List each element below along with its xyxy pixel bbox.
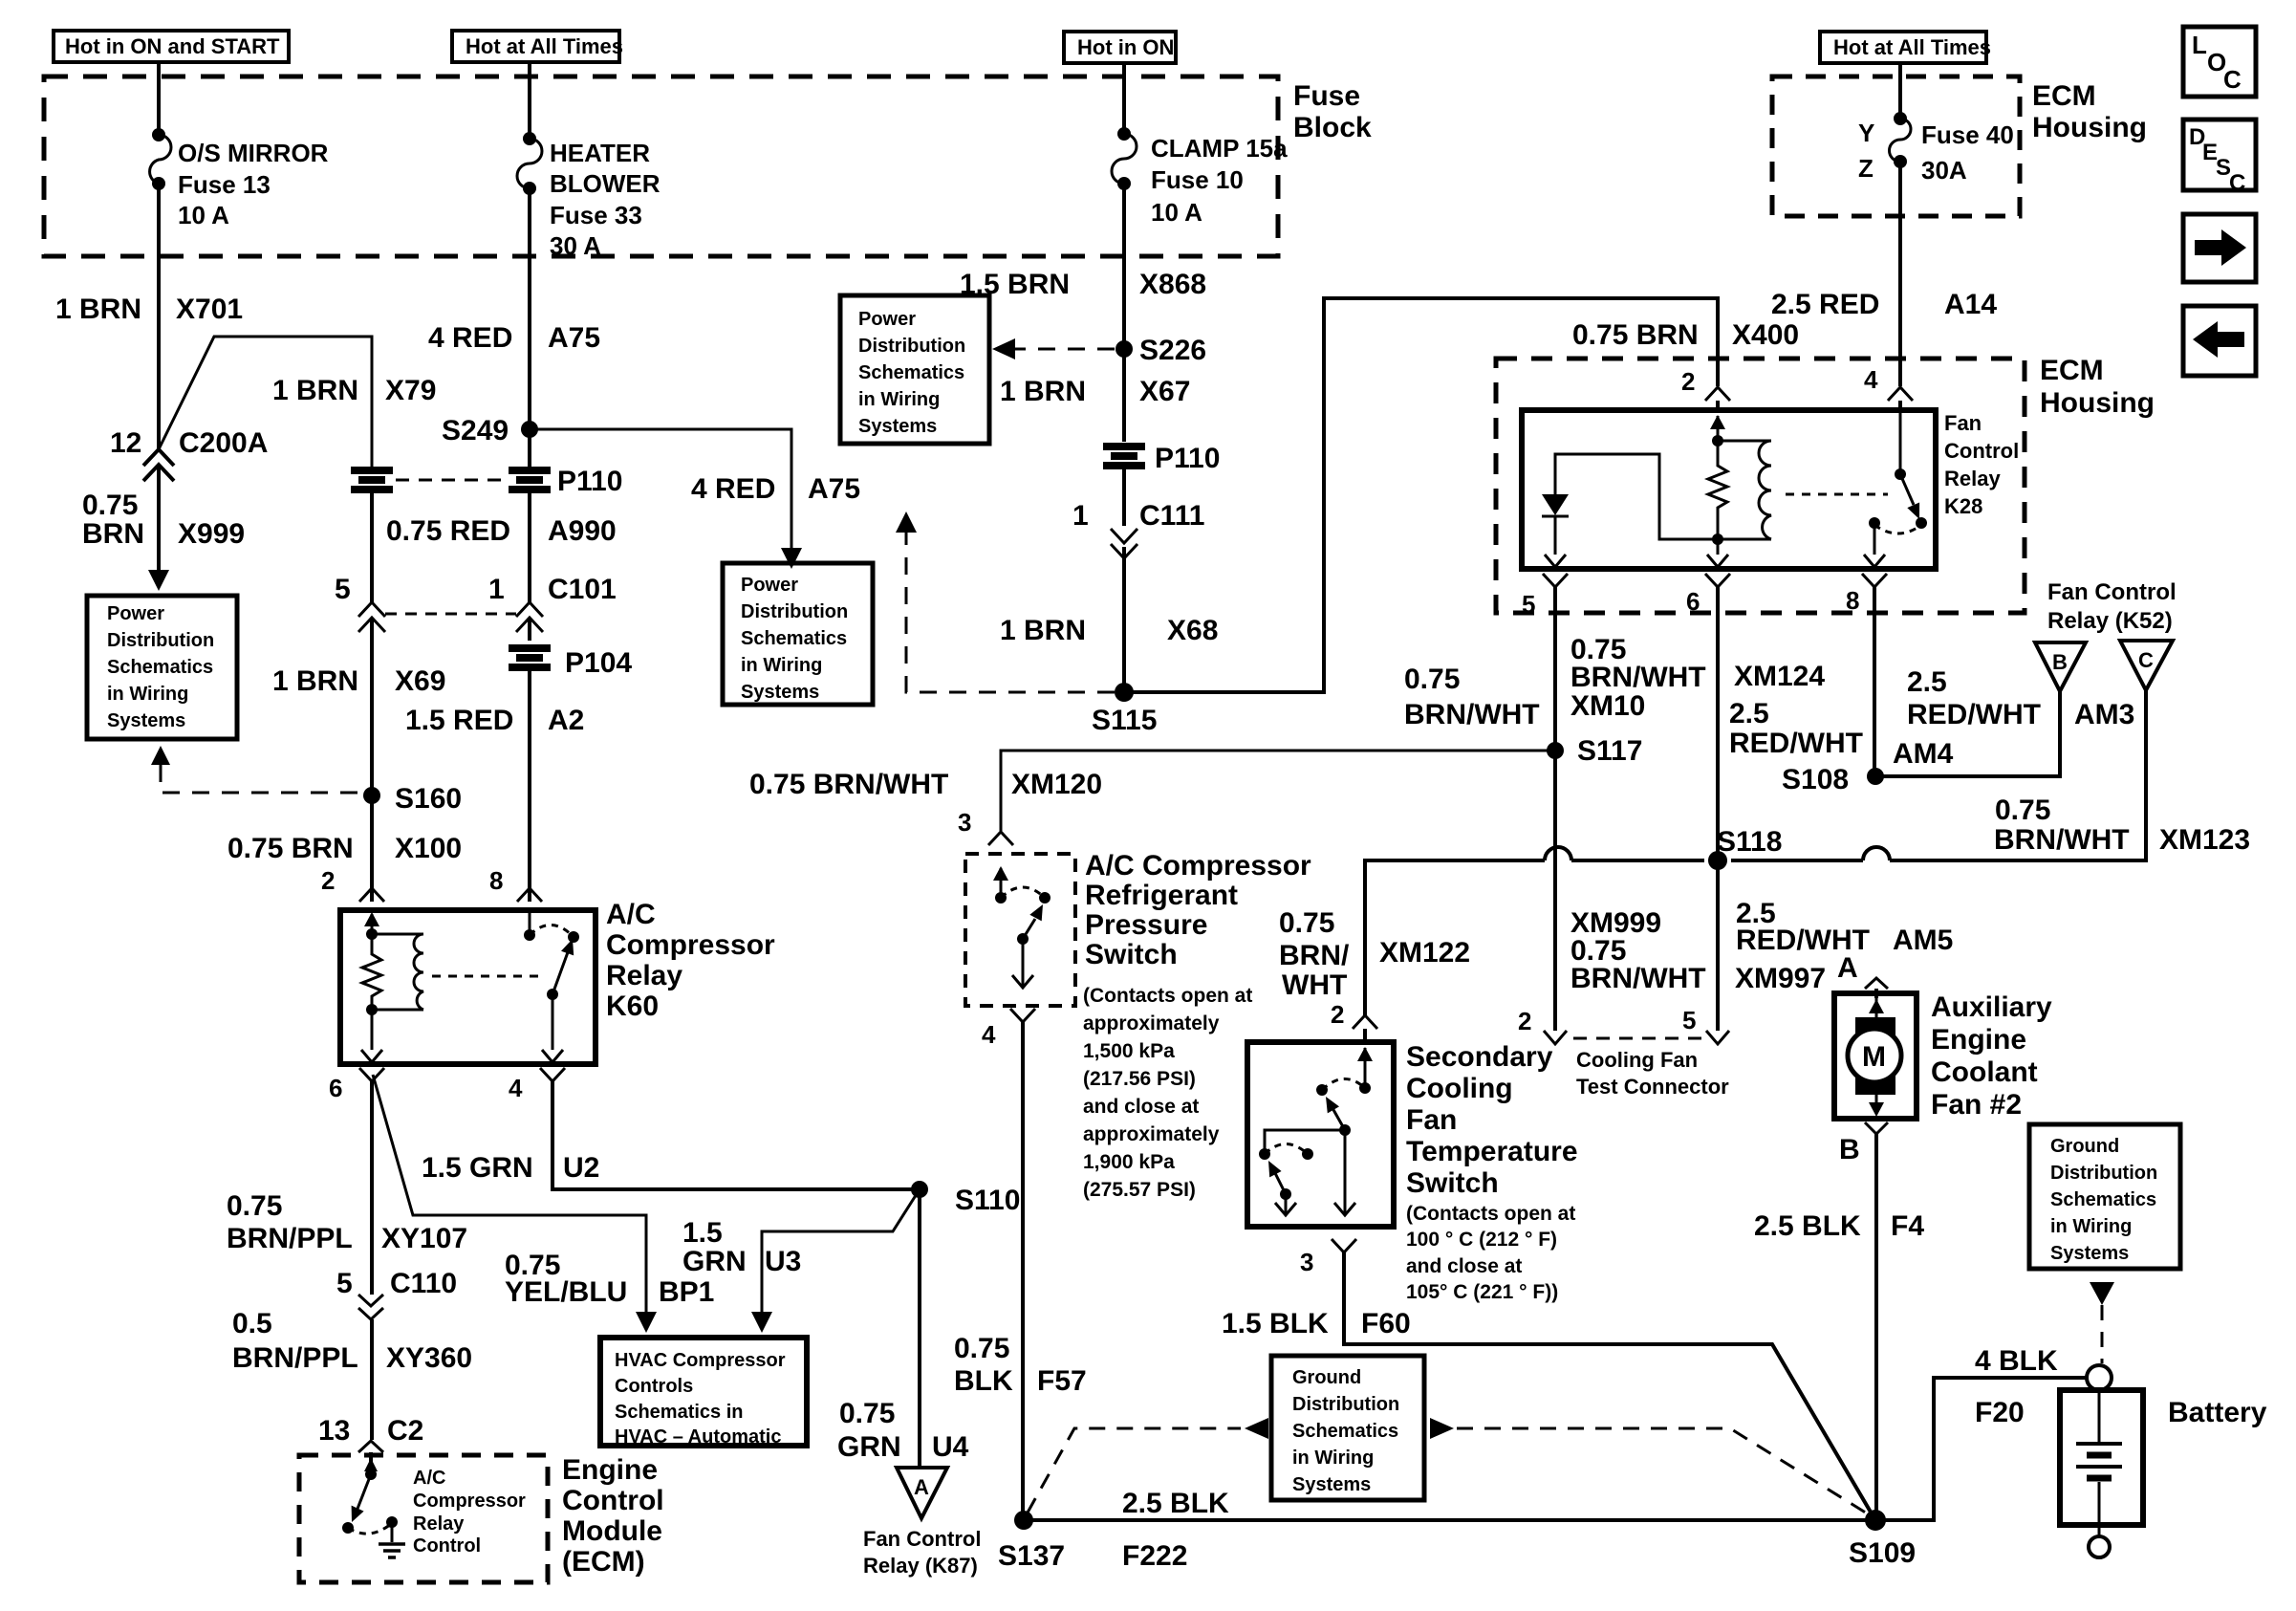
- K28 pin2 entry arrow: [1710, 415, 1725, 446]
- svg-text:Coolant: Coolant: [1931, 1056, 2038, 1088]
- chevron ECM2 pin2: [1681, 367, 1730, 401]
- wire: Hot at All Times to fuse 40: [1898, 63, 1902, 119]
- arrowhead A75: [781, 548, 802, 569]
- label: pin 4 pressure switch: [982, 1020, 996, 1049]
- svg-text:BP1: BP1: [659, 1276, 714, 1308]
- svg-text:30 A: 30 A: [550, 231, 601, 260]
- label: Auxiliary Engine Coolant Fan #2: [1931, 991, 2052, 1121]
- relay K60 box: [340, 910, 596, 1064]
- svg-text:BRN/: BRN/: [1279, 940, 1350, 971]
- svg-text:F20: F20: [1975, 1397, 2025, 1428]
- svg-text:approximately: approximately: [1083, 1123, 1220, 1145]
- label: 1 BRN | X69: [272, 665, 445, 697]
- svg-text:Schematics in: Schematics in: [615, 1402, 744, 1423]
- svg-text:BLOWER: BLOWER: [550, 169, 661, 198]
- wire: XM120 horizontal from S117: [1001, 751, 1555, 831]
- wire: X100 segment: [370, 795, 374, 902]
- svg-text:1 BRN: 1 BRN: [1000, 376, 1086, 407]
- Power Distribution box 1: [87, 596, 237, 739]
- label: ECM Housing (top): [2032, 80, 2147, 143]
- label: 5 | C110: [336, 1268, 457, 1299]
- label: P110: [1155, 443, 1220, 474]
- hop over AM5 wire: [1863, 847, 1890, 860]
- svg-text:10 A: 10 A: [178, 201, 229, 229]
- svg-text:X100: X100: [395, 833, 462, 864]
- chevron motor pin A: [1837, 952, 1888, 989]
- label: 0.75 BRN/ WHT (XM122): [1279, 907, 1470, 1001]
- svg-text:RED/WHT: RED/WHT: [1907, 699, 2041, 730]
- svg-text:Fan Control: Fan Control: [2047, 579, 2177, 605]
- label: 1 BRN | X701: [55, 294, 243, 325]
- svg-text:P110: P110: [1155, 443, 1220, 474]
- connector C111 (double chevron down): [1111, 529, 1137, 558]
- label: 1.5 RED | A2: [405, 705, 584, 736]
- svg-text:Engine: Engine: [1931, 1024, 2026, 1056]
- svg-text:0.75: 0.75: [227, 1190, 282, 1222]
- wire: pin5 down to S117: [1553, 587, 1557, 751]
- svg-text:P110: P110: [557, 466, 622, 497]
- svg-text:Control: Control: [562, 1485, 664, 1516]
- svg-text:Fuse 13: Fuse 13: [178, 170, 271, 199]
- svg-text:1.5: 1.5: [682, 1217, 723, 1249]
- svg-text:Cooling Fan: Cooling Fan: [1576, 1048, 1698, 1072]
- label: 0.75 BLK | F57: [954, 1333, 1087, 1397]
- svg-text:S117: S117: [1577, 735, 1642, 767]
- svg-text:Switch: Switch: [1085, 939, 1178, 970]
- svg-text:100 ° C (212 ° F): 100 ° C (212 ° F): [1406, 1229, 1557, 1251]
- wire: X868 fuse10 to S226: [1122, 184, 1126, 442]
- wire: X69 segment: [370, 618, 374, 795]
- svg-text:Module: Module: [562, 1515, 662, 1547]
- wire: XM123 triangle C down and across with hops: [1365, 690, 2146, 1015]
- svg-text:S249: S249: [442, 415, 509, 446]
- svg-text:0.75 BRN: 0.75 BRN: [1572, 319, 1699, 351]
- label: 0.75 YEL/BLU | BP1: [505, 1250, 714, 1308]
- svg-text:Test Connector: Test Connector: [1576, 1075, 1729, 1099]
- svg-text:Compressor: Compressor: [413, 1491, 526, 1512]
- dashed wire: Ground box to S109: [1457, 1428, 1872, 1516]
- svg-text:K28: K28: [1944, 494, 1982, 518]
- ECM internal switch (A/C Compressor Relay Control): [342, 1458, 405, 1557]
- K60 switch arm: [542, 939, 574, 1062]
- svg-text:Housing: Housing: [2032, 112, 2147, 143]
- svg-text:C200A: C200A: [179, 427, 268, 459]
- svg-text:0.75 BRN/WHT: 0.75 BRN/WHT: [749, 769, 948, 800]
- svg-text:and close at: and close at: [1406, 1255, 1522, 1277]
- svg-text:Z: Z: [1858, 154, 1874, 183]
- label: 1.5 GRN | U2: [422, 1152, 599, 1184]
- wire: XY107 segment pin6 down: [370, 1081, 374, 1295]
- svg-text:1: 1: [1072, 500, 1089, 532]
- wire: Hot at All Times to fuse 33: [528, 62, 531, 139]
- connector P110 (third): [1103, 446, 1145, 466]
- svg-text:Schematics: Schematics: [858, 362, 964, 383]
- label: P110: [557, 466, 622, 497]
- right-arrow box: [2183, 214, 2256, 282]
- wire: pin8 down to S108: [1873, 587, 1876, 776]
- label: 0.75 BRN/WHT | XM120: [749, 769, 1102, 800]
- ECM Housing dashed box (top right, fuse 40): [1772, 76, 2020, 216]
- label: CLAMP 15a Fuse 10 10 A: [1151, 134, 1288, 227]
- svg-text:XM10: XM10: [1570, 690, 1645, 722]
- svg-text:GRN: GRN: [682, 1246, 747, 1277]
- svg-text:2.5 BLK: 2.5 BLK: [1122, 1488, 1229, 1519]
- svg-text:8: 8: [489, 866, 503, 895]
- svg-text:BLK: BLK: [954, 1365, 1013, 1397]
- svg-text:Relay: Relay: [413, 1513, 465, 1535]
- label: 1.5 BRN | X868: [960, 269, 1206, 300]
- label: Fuse 40 30A: [1921, 120, 2014, 185]
- svg-text:X69: X69: [395, 665, 445, 697]
- wire: XY360 segment: [370, 1319, 374, 1440]
- label: XM124 2.5 RED/WHT: [1729, 661, 1863, 759]
- connector C101 (right, double chevron up): [516, 602, 543, 632]
- svg-text:BRN/WHT: BRN/WHT: [1570, 963, 1706, 994]
- svg-text:C: C: [2229, 170, 2245, 196]
- label: 2.5 RED/WHT | AM5: [1736, 898, 1953, 956]
- svg-text:Temperature: Temperature: [1406, 1136, 1578, 1167]
- svg-text:ECM: ECM: [2040, 355, 2104, 386]
- svg-text:XM124: XM124: [1734, 661, 1825, 692]
- svg-text:F4: F4: [1891, 1210, 1924, 1242]
- label: 13 | C2: [318, 1415, 423, 1447]
- node S118: [1708, 826, 1782, 870]
- K60 pin6 chevron below box: [359, 1068, 384, 1081]
- svg-text:C: C: [2138, 648, 2154, 672]
- Power Distribution box 3: [840, 295, 989, 444]
- svg-text:2: 2: [1518, 1007, 1531, 1035]
- svg-text:Distribution: Distribution: [1292, 1394, 1399, 1415]
- label: 1 | C111: [1072, 500, 1204, 532]
- svg-text:F60: F60: [1361, 1308, 1411, 1339]
- Ground Distribution box (right): [2029, 1124, 2180, 1269]
- chevron pin4: [1010, 1009, 1035, 1022]
- svg-text:Y: Y: [1858, 119, 1874, 147]
- wire: X79 diagonal and down: [159, 337, 372, 469]
- svg-text:YEL/BLU: YEL/BLU: [505, 1276, 627, 1308]
- svg-text:B: B: [2052, 650, 2068, 674]
- svg-text:10 A: 10 A: [1151, 198, 1202, 227]
- svg-text:4 RED: 4 RED: [691, 473, 775, 505]
- label: 0.75 BRN | X999: [82, 490, 245, 550]
- label: 2.5 BLK | F222: [1122, 1488, 1229, 1572]
- wire: F57 pressure switch pin4 down to S137: [1021, 1022, 1025, 1520]
- svg-text:0.75 BRN: 0.75 BRN: [227, 833, 354, 864]
- svg-text:S115: S115: [1092, 705, 1157, 736]
- fuse F40 (Fuse 40 30A): [1890, 112, 1912, 168]
- svg-text:Schematics: Schematics: [107, 657, 213, 678]
- label: 4 RED | A75 (lower): [691, 473, 860, 505]
- svg-text:B: B: [1839, 1134, 1860, 1165]
- svg-text:1 BRN: 1 BRN: [272, 665, 358, 697]
- svg-text:Systems: Systems: [741, 682, 819, 703]
- K60 pin4 chevron below box: [540, 1068, 565, 1081]
- svg-text:XM997: XM997: [1735, 963, 1826, 994]
- wire pin2 into box: [1363, 1029, 1367, 1042]
- svg-text:S109: S109: [1849, 1537, 1916, 1569]
- label: 0.75 BRN/WHT | XM123: [1994, 795, 2250, 856]
- LOC box: [2183, 27, 2256, 97]
- svg-text:Relay (K52): Relay (K52): [2047, 608, 2173, 634]
- arrowhead below right Ground box: [2090, 1282, 2114, 1305]
- wire: A2 segment down to relay pin 8: [528, 667, 531, 902]
- svg-text:1 BRN: 1 BRN: [1000, 615, 1086, 646]
- wire: U3 from S110 to HVAC box: [751, 1189, 920, 1333]
- label: pressure switch contact note: [1083, 985, 1252, 1201]
- label: O/S MIRROR Fuse 13 10 A: [178, 139, 329, 229]
- Power Distribution box 2: [723, 563, 873, 705]
- svg-text:5: 5: [335, 574, 351, 605]
- wire: A2 upper segment: [528, 618, 531, 641]
- node S108: [1782, 764, 1884, 795]
- chevron ECM2 pin4: [1864, 365, 1913, 401]
- label: Battery: [2168, 1397, 2267, 1428]
- temp switch upper contacts: [1316, 1047, 1373, 1096]
- svg-text:0.75: 0.75: [1995, 795, 2050, 826]
- label: 1.5 GRN | U3: [682, 1217, 801, 1277]
- arrowhead into Power Distribution box 1: [148, 570, 169, 591]
- svg-text:C: C: [2223, 65, 2242, 94]
- svg-text:1,500 kPa: 1,500 kPa: [1083, 1040, 1175, 1062]
- label: 4 RED | A75 (upper): [428, 322, 600, 354]
- label: 0.75 GRN | U4: [837, 1398, 969, 1463]
- chevron motor pin B: [1839, 1122, 1888, 1165]
- svg-text:4: 4: [509, 1074, 523, 1102]
- K28 coil: [1718, 441, 1771, 539]
- svg-text:Relay: Relay: [1944, 467, 2001, 490]
- svg-text:2.5 BLK: 2.5 BLK: [1754, 1210, 1861, 1242]
- ECM Housing dashed box 2: [1496, 359, 2025, 613]
- label: Fan Control Relay (K52): [2047, 579, 2177, 634]
- label: 0.75 BRN/PPL | XY107: [227, 1190, 467, 1254]
- wire: XM999 S117 down to test connector pin2: [1553, 751, 1557, 1031]
- label: AM4: [1893, 738, 1954, 770]
- svg-text:1: 1: [488, 574, 505, 605]
- svg-text:Engine: Engine: [562, 1454, 658, 1486]
- A/C pressure switch dashed box: [965, 854, 1075, 1006]
- temp switch lower contacts: [1259, 1144, 1313, 1161]
- svg-text:(Contacts open at: (Contacts open at: [1406, 1203, 1575, 1225]
- label: ECM Housing (2): [2040, 355, 2155, 419]
- chevron pin3: [988, 832, 1013, 845]
- svg-text:2: 2: [321, 866, 335, 895]
- svg-text:Control: Control: [1944, 439, 2019, 463]
- Battery box: [2060, 1390, 2143, 1536]
- battery top terminal: [2087, 1365, 2112, 1390]
- svg-text:Systems: Systems: [858, 416, 937, 437]
- svg-text:in Wiring: in Wiring: [858, 389, 940, 410]
- svg-text:4 BLK: 4 BLK: [1975, 1345, 2058, 1377]
- svg-text:Switch: Switch: [1406, 1167, 1499, 1199]
- test connector pin2 arrow: [1518, 1007, 1567, 1044]
- label: 2.5 RED/WHT | AM3: [1907, 666, 2134, 730]
- svg-text:A2: A2: [548, 705, 584, 736]
- label: 4 BLK | F20: [1975, 1345, 2058, 1428]
- svg-text:0.75: 0.75: [839, 1398, 895, 1429]
- svg-text:P104: P104: [565, 647, 632, 679]
- svg-text:in Wiring: in Wiring: [741, 655, 822, 676]
- svg-text:WHT: WHT: [1282, 969, 1347, 1001]
- svg-text:X79: X79: [385, 375, 436, 406]
- connector P110 (right half): [509, 470, 551, 490]
- svg-text:2.5 RED: 2.5 RED: [1771, 289, 1879, 320]
- wire: S115 solid route to ECM2 pin2: [1124, 298, 1718, 692]
- svg-text:K60: K60: [606, 991, 659, 1022]
- temp switch right branch down: [1334, 1130, 1355, 1215]
- svg-text:1 BRN: 1 BRN: [272, 375, 358, 406]
- svg-text:BRN: BRN: [82, 518, 144, 550]
- K28 switch contact from pin4: [1895, 410, 1906, 480]
- temp switch upper arm: [1326, 1097, 1351, 1136]
- hop over XM999 wire: [1545, 847, 1571, 860]
- svg-text:HEATER: HEATER: [550, 139, 650, 167]
- svg-text:XY107: XY107: [381, 1223, 467, 1254]
- label: 2.5 RED | A14: [1771, 289, 1997, 320]
- svg-text:A/C: A/C: [606, 899, 656, 930]
- label: Secondary Cooling Fan Temperature Switch: [1406, 1041, 1578, 1199]
- svg-text:Power: Power: [858, 309, 916, 330]
- triangle C: [2120, 641, 2173, 690]
- triangle A (Fan Control Relay K87): [897, 1468, 947, 1518]
- label: 1 BRN | X67: [1000, 376, 1190, 407]
- fuse block dashed box: [44, 76, 1278, 256]
- svg-text:Systems: Systems: [1292, 1474, 1371, 1495]
- chevron temp switch pin3: [1300, 1239, 1356, 1276]
- K60 dashed coil to arm: [432, 975, 541, 978]
- K60 coil: [372, 934, 423, 1010]
- svg-text:Hot at All Times: Hot at All Times: [1833, 35, 1991, 59]
- svg-text:U3: U3: [765, 1246, 801, 1277]
- label: 1 BRN | X79: [272, 375, 436, 406]
- connector C2 chevron: [358, 1441, 383, 1452]
- svg-text:F57: F57: [1037, 1365, 1087, 1397]
- wire: BP1 diagonal from pin6: [373, 1075, 657, 1333]
- svg-text:1 BRN: 1 BRN: [55, 294, 141, 325]
- label: 5 | 1 | C101: [335, 574, 617, 605]
- svg-text:Schematics: Schematics: [2050, 1189, 2156, 1210]
- svg-text:CLAMP 15a: CLAMP 15a: [1151, 134, 1288, 163]
- svg-text:0.75: 0.75: [1404, 664, 1460, 695]
- HVAC Compressor Controls box: [600, 1338, 807, 1448]
- svg-text:Fuse: Fuse: [1293, 80, 1360, 112]
- svg-text:A75: A75: [548, 322, 600, 354]
- svg-text:BRN/WHT: BRN/WHT: [1994, 824, 2130, 856]
- K28 bottom node: [1707, 533, 1728, 567]
- svg-text:ECM: ECM: [2032, 80, 2096, 112]
- K28 diode branch wiring: [1555, 454, 1718, 539]
- svg-text:A/C: A/C: [413, 1468, 445, 1489]
- connector chevron pin2 K60: [359, 888, 384, 902]
- svg-text:in Wiring: in Wiring: [2050, 1216, 2132, 1237]
- K28 resistor: [1708, 441, 1727, 539]
- K60 switch contacts: [524, 910, 579, 943]
- svg-text:Secondary: Secondary: [1406, 1041, 1553, 1073]
- svg-text:Distribution: Distribution: [741, 601, 848, 622]
- svg-text:A75: A75: [808, 473, 860, 505]
- wire: fuse 33 down to S249: [528, 188, 531, 469]
- dashed link C101: [385, 613, 516, 616]
- svg-text:XM123: XM123: [2159, 824, 2250, 856]
- svg-text:X868: X868: [1139, 269, 1206, 300]
- wire: X999 segment to arrow: [157, 466, 161, 572]
- svg-text:Fan Control: Fan Control: [863, 1527, 981, 1551]
- svg-text:Hot in ON: Hot in ON: [1077, 35, 1174, 59]
- svg-text:3: 3: [958, 808, 971, 837]
- label: Fan Control Relay K28: [1944, 411, 2019, 518]
- label: 1.5 BLK | F60: [1222, 1308, 1411, 1339]
- pressure switch contacts: [993, 866, 1051, 903]
- svg-text:HVAC – Automatic: HVAC – Automatic: [615, 1426, 781, 1448]
- relay K28 box: [1522, 410, 1936, 569]
- svg-text:X999: X999: [178, 518, 245, 550]
- svg-text:Control: Control: [413, 1535, 481, 1557]
- wire: XM122 elbow down to temp switch pin2: [1363, 1013, 1367, 1017]
- svg-text:Fan: Fan: [1944, 411, 1982, 435]
- svg-text:S226: S226: [1139, 335, 1206, 366]
- label: 12 | C200A: [110, 427, 268, 459]
- label: 0.75 RED | A990: [386, 515, 617, 547]
- svg-text:4 RED: 4 RED: [428, 322, 512, 354]
- svg-text:U4: U4: [932, 1431, 969, 1463]
- svg-text:A: A: [914, 1475, 929, 1499]
- svg-text:Ground: Ground: [1292, 1367, 1361, 1388]
- svg-text:X68: X68: [1167, 615, 1218, 646]
- node S110: [911, 1181, 1020, 1216]
- svg-text:(ECM): (ECM): [562, 1546, 645, 1578]
- label: temp switch contact note: [1406, 1203, 1575, 1303]
- svg-text:Hot in ON and START: Hot in ON and START: [65, 34, 280, 58]
- svg-text:Systems: Systems: [107, 710, 185, 731]
- chevron pin8 below K28: [1846, 574, 1887, 615]
- K60 bottom node: [361, 1004, 382, 1062]
- wire below P110: [1122, 467, 1126, 526]
- wire: S249 branch to Power Distribution box 2: [530, 429, 791, 550]
- triangle B: [2035, 642, 2086, 691]
- node S226: [1116, 335, 1206, 366]
- K60 resistor: [362, 934, 381, 1010]
- K28 switch arm: [1900, 474, 1927, 529]
- svg-text:BRN/WHT: BRN/WHT: [1404, 699, 1540, 730]
- svg-text:Hot at All Times: Hot at All Times: [466, 34, 623, 58]
- svg-text:XM120: XM120: [1011, 769, 1102, 800]
- node S115: [1092, 683, 1157, 736]
- svg-text:A990: A990: [548, 515, 617, 547]
- wire: A990 segment: [528, 490, 531, 602]
- svg-text:AM5: AM5: [1893, 925, 1953, 956]
- svg-text:AM3: AM3: [2074, 699, 2134, 730]
- wire: AM3 S108 to triangle B: [1875, 691, 2060, 776]
- battery bottom terminal: [2089, 1536, 2110, 1557]
- fuse F13 (O/S MIRROR Fuse 13 10A): [150, 128, 171, 190]
- node S117: [1547, 735, 1642, 767]
- Secondary Cooling Fan Temperature Switch box: [1247, 1042, 1394, 1227]
- connector chevron pin8 K60: [517, 888, 542, 902]
- svg-text:Fan #2: Fan #2: [1931, 1089, 2022, 1121]
- svg-text:(Contacts open at: (Contacts open at: [1083, 985, 1252, 1007]
- svg-text:Systems: Systems: [2050, 1243, 2129, 1264]
- wire: F222 bottom run S137 to S109 to battery: [1024, 1378, 2086, 1520]
- wire: pin6 down to S118: [1716, 587, 1720, 860]
- svg-text:C101: C101: [548, 574, 617, 605]
- left-arrow box: [2183, 306, 2256, 376]
- DESC box: [2183, 120, 2256, 196]
- svg-text:A/C Compressor: A/C Compressor: [1085, 850, 1311, 882]
- svg-text:Schematics: Schematics: [1292, 1421, 1398, 1442]
- fuse F33 (HEATER BLOWER Fuse 33 30A): [517, 132, 542, 195]
- svg-text:Refrigerant: Refrigerant: [1085, 880, 1238, 911]
- node S109: [1849, 1510, 1916, 1569]
- svg-text:Distribution: Distribution: [107, 630, 214, 651]
